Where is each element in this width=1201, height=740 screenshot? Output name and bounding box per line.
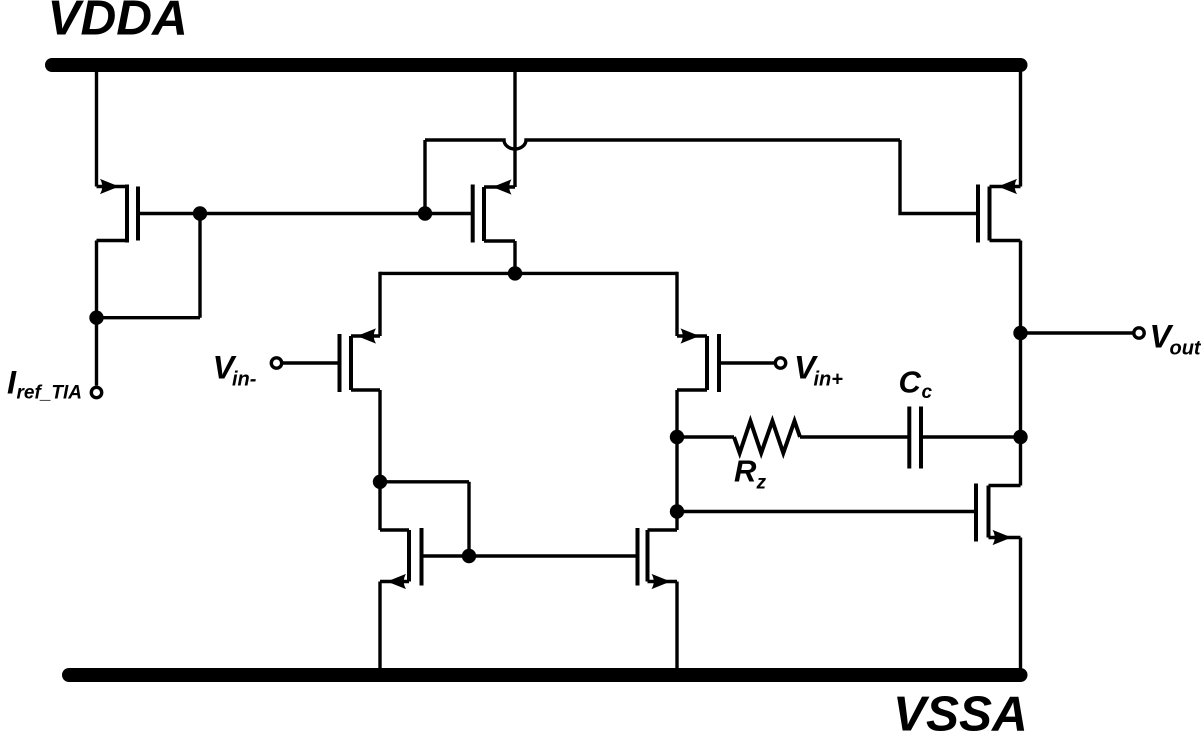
transistor M1 input PMOS Vin- bbox=[340, 328, 381, 392]
node second stage gate bbox=[670, 504, 684, 518]
wire resistor to capacitor bbox=[800, 435, 909, 438]
wire M8 diode tie horizontal bbox=[97, 316, 201, 319]
transistor M2 input PMOS Vin+ bbox=[677, 328, 719, 392]
node Iref bbox=[89, 311, 103, 325]
wire M3 diode tie top bbox=[380, 480, 469, 483]
svg-text:VDDA: VDDA bbox=[48, 0, 188, 46]
svg-text:ref_TIA: ref_TIA bbox=[17, 383, 82, 404]
wire Vin+ lead bbox=[719, 361, 774, 364]
transistor M8 bias PMOS diode-connected bbox=[97, 179, 139, 243]
node bias corner bbox=[418, 206, 432, 220]
transistor M4 mirror NMOS bbox=[638, 528, 678, 589]
svg-text:VSSA: VSSA bbox=[893, 687, 1028, 740]
wire bias riser bbox=[423, 140, 426, 214]
terminal Iref_TIA bbox=[91, 387, 101, 397]
wire M4 source drop bbox=[675, 582, 678, 675]
wire M8 source to VDDA bbox=[95, 66, 98, 187]
wire Iref lead bbox=[95, 318, 98, 386]
svg-text:I: I bbox=[7, 364, 17, 400]
wire M6 source to VDDA bbox=[1019, 66, 1022, 187]
terminal Vin+ bbox=[775, 358, 785, 368]
wire tail right drop bbox=[675, 272, 678, 336]
wire node to M4 drain bbox=[675, 512, 678, 531]
terminal Vout bbox=[1134, 328, 1144, 338]
transistor M7 output NMOS bbox=[976, 484, 1021, 546]
node cap junction bbox=[1013, 430, 1027, 444]
wire tail left drop bbox=[378, 272, 381, 336]
wire M7 source drop bbox=[1019, 538, 1022, 675]
wire mirror gate run bbox=[422, 554, 638, 557]
wire node to resistor bbox=[677, 435, 734, 438]
node mirror gate bbox=[462, 549, 476, 563]
wire M5 drain to tail rail bbox=[513, 241, 516, 273]
transistor M5 tail PMOS bbox=[473, 179, 515, 242]
node bias gate bbox=[193, 206, 207, 220]
wire bias net M8 to M5 bbox=[200, 212, 425, 215]
wire M3 diode tie drop bbox=[467, 482, 470, 556]
svg-text:R: R bbox=[734, 454, 757, 489]
wire bias drop to M6 bbox=[900, 140, 978, 214]
resistor Rz bbox=[734, 421, 800, 453]
wire M8 diode tie vertical bbox=[198, 214, 201, 318]
svg-text:C: C bbox=[899, 365, 922, 400]
svg-text:c: c bbox=[922, 382, 933, 403]
wire M1 drain drop bbox=[378, 390, 381, 482]
wire M8 drain down to Iref node bbox=[95, 241, 98, 318]
wire M3 source drop bbox=[378, 582, 381, 675]
wire cap node to M7 drain bbox=[1019, 437, 1022, 486]
transistor M6 output PMOS bbox=[978, 179, 1021, 243]
wire second stage gate run bbox=[677, 510, 976, 513]
wire M6 drain to output node bbox=[1019, 241, 1022, 334]
wire node down to second stage gate bbox=[675, 437, 678, 512]
wire tail rail bbox=[380, 272, 677, 275]
svg-text:out: out bbox=[1170, 338, 1201, 360]
wire M2 drain drop bbox=[675, 390, 678, 437]
wire M5 gate lead bbox=[425, 212, 473, 215]
VSSA rail bbox=[69, 668, 1021, 682]
node tail bbox=[508, 266, 522, 280]
wire output node down to cap node bbox=[1019, 333, 1022, 437]
transistor M3 mirror NMOS diode-connected bbox=[380, 528, 422, 589]
wire capacitor to output node bbox=[921, 435, 1021, 438]
node M1 drain bbox=[373, 475, 387, 489]
svg-text:in-: in- bbox=[232, 368, 257, 390]
svg-text:in+: in+ bbox=[814, 368, 844, 390]
wire M8 gate lead bbox=[138, 212, 200, 215]
node Rz input bbox=[670, 430, 684, 444]
svg-text:z: z bbox=[756, 472, 767, 493]
capacitor Cc bbox=[909, 407, 921, 469]
wire Vout lead bbox=[1021, 331, 1133, 334]
wire Vin- lead bbox=[283, 361, 340, 364]
wire M3 drain riser bbox=[378, 482, 381, 530]
wire M5 source to VDDA bbox=[513, 66, 516, 187]
wire bias top run with hop over M5 source bbox=[425, 140, 900, 149]
VDDA rail bbox=[52, 58, 1021, 72]
terminal Vin- bbox=[271, 358, 281, 368]
node output bbox=[1013, 326, 1027, 340]
